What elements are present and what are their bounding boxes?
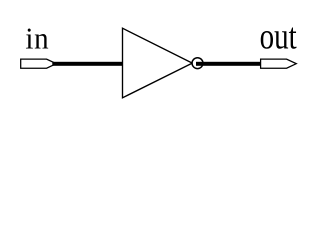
node in label xyxy=(25,22,49,56)
wire from in pin to inverter input xyxy=(52,62,124,66)
inverter U1 triangle xyxy=(123,28,193,98)
svg-text:in: in xyxy=(25,22,49,56)
wire from bubble to out pin xyxy=(196,62,261,66)
node out label xyxy=(260,16,298,57)
pin out xyxy=(261,59,297,68)
svg-text:out: out xyxy=(260,16,298,57)
inversion bubble xyxy=(192,58,203,69)
pin in xyxy=(21,59,57,68)
